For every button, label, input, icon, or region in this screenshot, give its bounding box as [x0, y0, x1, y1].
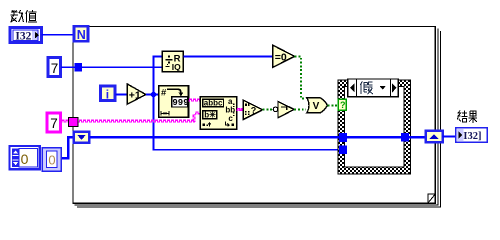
svg-text:N: N [77, 28, 86, 42]
boolean wire: NOT gate to OR gate lower input [294, 108, 306, 110]
wire: junction down to case tunnel [154, 95, 340, 150]
wire junction dot [151, 92, 157, 98]
label 假 (false) as drawn strokes [360, 81, 373, 94]
wire: +1 output to junction and Number-To-Decimal-String input [146, 94, 159, 96]
svg-text:#: # [161, 87, 167, 98]
thick wire: case right tunnel to right shift register [409, 136, 425, 139]
for loop frame shadow line 1 [75, 29, 438, 205]
svg-text:i: i [106, 87, 109, 101]
I32 control terminal (数值) [10, 28, 42, 43]
left shift register (down arrow) [74, 132, 90, 143]
svg-text:=0: =0 [275, 51, 287, 63]
shift register initializer wire (0 constant up to left shift register) [62, 137, 74, 158]
svg-text:?: ? [340, 100, 346, 110]
wire: constant 7 to loop tunnel [61, 66, 74, 68]
N terminal (loop count) [74, 26, 88, 42]
case selector label (◀ 假 ▼ ▶) [348, 79, 399, 97]
OR gate (V) [307, 98, 328, 113]
numeric constant 7 (blue) [48, 58, 60, 77]
svg-text:0: 0 [21, 151, 29, 167]
svg-text:V: V [313, 101, 320, 112]
svg-text:999: 999 [172, 98, 188, 108]
thick wire: left shift register to case structure left tunnel [89, 136, 339, 139]
loop tunnel (pink string) [69, 118, 78, 127]
boolean wire: empty-string? to NOT gate [263, 108, 274, 110]
string wire: pink 7 to loop tunnel [61, 120, 69, 122]
boolean wire: =0 output right then down to OR gate top input [295, 57, 306, 99]
svg-text:I32: I32 [15, 30, 31, 42]
label 结果 (result) as drawn strokes [457, 110, 477, 122]
label 数值 (numeric) as drawn strokes [11, 10, 38, 22]
string wire: number-to-string output to match pattern string input [189, 99, 201, 101]
svg-text:7: 7 [51, 61, 59, 76]
numeric constant 0 with increment/decrement [10, 146, 40, 169]
numeric constant 0 (shift register initial value, selected) [42, 148, 61, 172]
for loop dog-ear folded corner [428, 194, 435, 203]
svg-text:IQ: IQ [172, 62, 181, 72]
empty string/path? function [243, 100, 262, 119]
loop tunnel (blue, for constant 7) [74, 63, 82, 72]
svg-text:I32]: I32] [463, 131, 481, 142]
svg-text:+1: +1 [129, 90, 141, 102]
for loop frame (main rectangle) [73, 26, 435, 203]
svg-text:abbc: abbc [204, 99, 223, 108]
equal to zero? function (=0) [273, 45, 295, 67]
case selector terminal ? [338, 99, 346, 110]
string wire: match pattern match output to empty-string? [237, 109, 244, 111]
case tunnel right [401, 133, 409, 142]
wire: tunnel to quotient-remainder y input [82, 66, 162, 68]
NOT gate (with input bubble) [273, 102, 294, 118]
string constant 7 (pink) [47, 113, 61, 132]
case structure checkered border [338, 80, 410, 174]
number to decimal string function (# 999) [159, 86, 189, 118]
string wire: tunnel right, jog up into match pattern regex input [78, 112, 200, 122]
right shift register (up arrow) [426, 131, 443, 142]
i terminal (loop iteration) [101, 86, 115, 101]
for loop frame shadow line 2 [77, 31, 440, 207]
thick wire through case (false case pass-through) [347, 136, 401, 139]
case tunnel lower-left (i+1 wire, unused in false case) [339, 146, 347, 154]
wire: i terminal to +1 increment [116, 94, 128, 96]
quotient and remainder function (divide R IQ) [162, 51, 183, 72]
I32 result indicator (结果) [456, 128, 487, 143]
boolean wire: OR output to case selector [328, 104, 338, 106]
svg-text:b✳: b✳ [204, 110, 216, 119]
case tunnel upper-left (shift register wire) [339, 133, 347, 142]
svg-text:?: ? [251, 105, 256, 115]
svg-text:7: 7 [50, 116, 58, 131]
wire: junction up to quotient-remainder x input [154, 57, 163, 95]
svg-text:c: c [228, 114, 233, 123]
+1 increment function [127, 84, 146, 104]
wire: I32 control to N terminal [42, 34, 75, 36]
match pattern function (abbc b*) [200, 97, 236, 130]
wire: right shift register to result indicator [443, 135, 456, 137]
svg-text:0: 0 [48, 153, 55, 168]
wire: quotient-remainder R output to equal-zero [183, 56, 272, 58]
